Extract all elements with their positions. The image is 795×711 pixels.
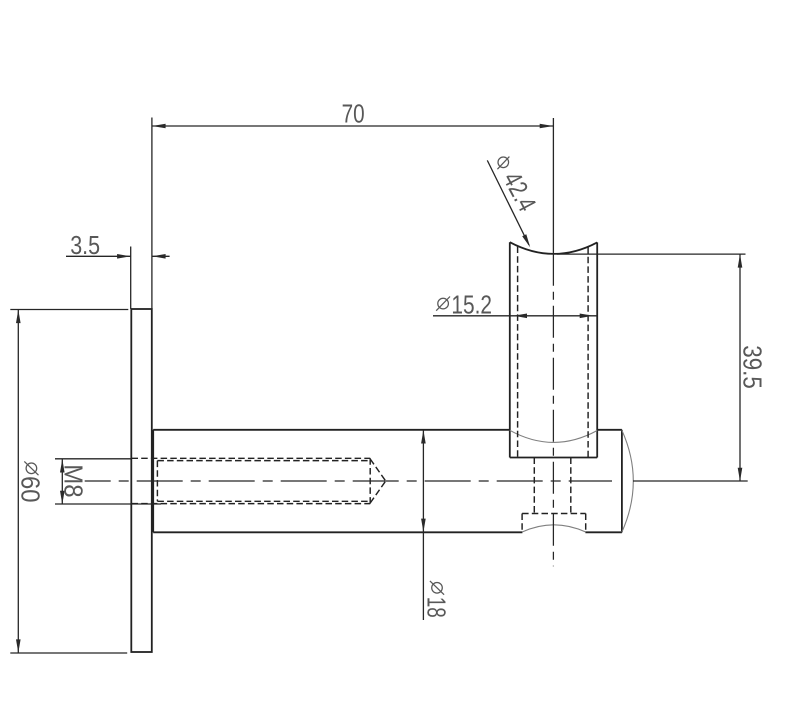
dim M8 extension line top [55, 458, 131, 460]
dim D15.2 arrow left [514, 314, 528, 319]
drill cone hidden lower [370, 481, 386, 503]
dim D18 arrow bottom [421, 519, 426, 533]
screw hole hidden line left [533, 458, 535, 514]
dim 39.5 arrow bottom [738, 468, 743, 482]
notch hidden left edge [521, 514, 523, 531]
dim D42.4 leader line [487, 160, 529, 245]
dim D18 text [421, 581, 451, 618]
dim 39.5 line [739, 254, 741, 481]
dim D15.2 arrow right [580, 314, 594, 319]
drill cone hidden upper [370, 459, 386, 481]
dim D42.4 text [497, 167, 542, 216]
saddle bore hidden line right [587, 247, 589, 458]
dim 39.5 text [737, 345, 767, 389]
dim D60 extension line top [10, 309, 128, 311]
thread end hidden vertical [369, 458, 371, 503]
dim D60 extension line bottom [10, 652, 127, 654]
notch hidden right edge [585, 514, 587, 531]
dim D18 line [422, 430, 424, 620]
dim D60 line [17, 310, 19, 653]
dim M8 line [61, 459, 63, 504]
M8 thread major hidden bottom [132, 503, 371, 505]
bottom notch arc [522, 525, 585, 532]
dim D15.2 line [433, 315, 598, 317]
screw hole hidden line right [570, 458, 572, 514]
dim 39.5 extension line top [557, 253, 746, 255]
dim M8 extension line bottom [55, 503, 161, 505]
svg-text:70: 70 [342, 99, 365, 129]
dim 70 arrow left [152, 124, 166, 129]
dim 3.5 extension line left [130, 247, 132, 309]
dim 3.5 arrow right [152, 254, 166, 259]
svg-text:60: 60 [16, 476, 46, 503]
svg-text:18: 18 [421, 597, 451, 618]
svg-text:15.2: 15.2 [451, 289, 492, 319]
dim 39.5 bottom extension (axis) [633, 480, 748, 482]
dim 39.5 arrow top [738, 254, 743, 268]
saddle top concave arc [510, 242, 597, 254]
dim D60 text [16, 461, 46, 502]
saddle bore hidden line left [517, 247, 519, 458]
dim M8 arrow bottom [60, 491, 65, 505]
M8 thread minor hidden bottom [157, 500, 370, 502]
svg-text:M8: M8 [59, 464, 89, 497]
dim D42.4 symbol circle [498, 157, 509, 168]
domed end arc [622, 430, 633, 532]
dim D42.4 leader arrow [522, 234, 530, 247]
svg-text:39.5: 39.5 [737, 345, 767, 389]
horizontal centerline [85, 480, 612, 482]
dim M8 text [59, 464, 89, 497]
dim D18 arrow top [421, 430, 426, 444]
thread start hidden vertical [156, 461, 158, 502]
dim 3.5 line left part [66, 255, 131, 257]
dim M8 arrow top [60, 459, 65, 473]
dim 3.5 line right part [152, 255, 170, 257]
shaft top edge [153, 429, 622, 431]
saddle-shaft intersection arc [510, 430, 597, 442]
saddle vertical centerline [552, 254, 554, 566]
dim D60 arrow top [16, 310, 21, 324]
M8 thread minor hidden top [157, 460, 370, 462]
dim D42.4 symbol slash [497, 157, 509, 170]
dim 70 arrow right [540, 124, 554, 129]
saddle left edge [509, 242, 511, 457]
saddle right edge [596, 242, 598, 457]
dim D15.2 text [436, 289, 492, 319]
svg-text:3.5: 3.5 [70, 230, 100, 260]
dim 70 line [152, 125, 553, 127]
shaft right face [621, 430, 623, 533]
M8 thread major hidden top [132, 457, 371, 459]
dim 70 extension line right (saddle center) [552, 118, 554, 254]
shaft bottom edge [153, 531, 622, 533]
shaft left face [152, 430, 154, 533]
saddle bottom line [510, 457, 597, 459]
dim 3.5 arrow left [117, 254, 131, 259]
dim 70 extension line left [151, 118, 153, 309]
notch hidden top edge [522, 513, 586, 515]
flange outline [131, 309, 152, 652]
dim D60 arrow bottom [16, 639, 21, 653]
